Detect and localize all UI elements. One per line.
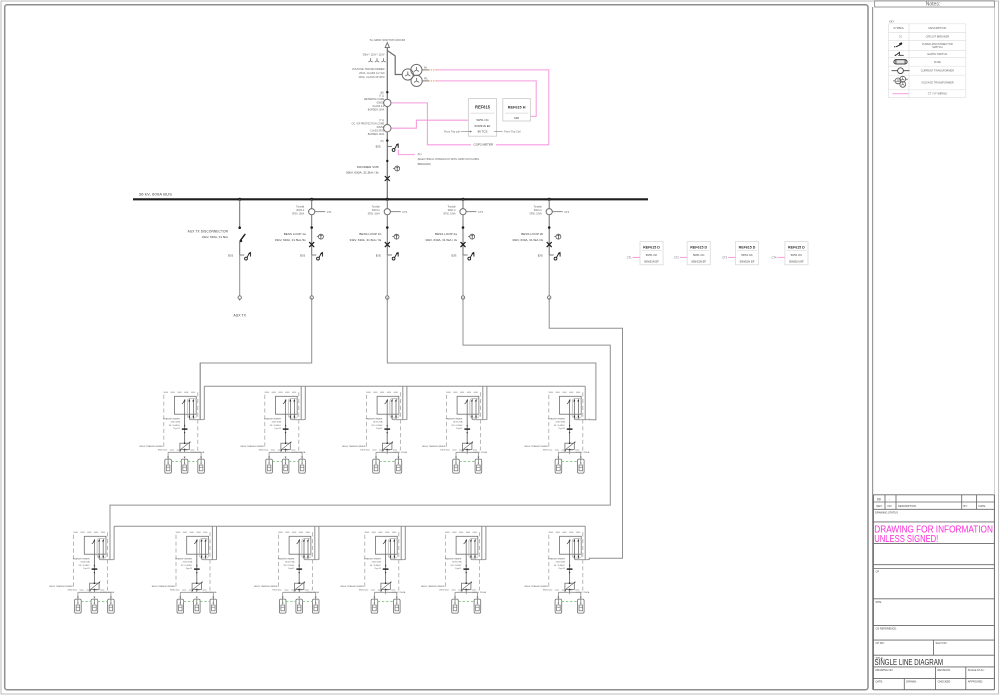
svg-text:(ELECTRICAL INTERLOCK WITH GRI: (ELECTRICAL INTERLOCK WITH GRID OUTGOING (418, 157, 480, 161)
svg-text:33kV, 630A, 31.5kA: 33kV, 630A, 31.5kA (202, 235, 228, 239)
svg-text:Toroidal: Toroidal (296, 206, 305, 209)
svg-text:BESS LOOP 2a: BESS LOOP 2a (435, 232, 457, 236)
svg-text:Notes:: Notes: (926, 2, 940, 8)
svg-text:EARTH SWITCH: EARTH SWITCH (928, 52, 948, 56)
svg-text:E/S: E/S (538, 254, 543, 258)
svg-text:DATE:: DATE: (876, 679, 884, 683)
svg-text:CURRENT TRANSFORMER: CURRENT TRANSFORMER (921, 69, 954, 73)
svg-text:86 TCS: 86 TCS (478, 130, 488, 134)
svg-text:OS REFERENCE:: OS REFERENCE: (876, 627, 897, 631)
svg-text:COP2 METER: COP2 METER (474, 142, 494, 146)
svg-text:From Trip coil: From Trip coil (444, 130, 460, 134)
svg-text:36 kV, 600A BUS: 36 kV, 600A BUS (139, 191, 172, 196)
svg-text:DESCRIPTION:: DESCRIPTION: (898, 504, 917, 508)
svg-text:(IL): (IL) (418, 152, 422, 156)
svg-text:FUSE: FUSE (934, 60, 941, 64)
svg-text:33kV, 630A, 31.5kA / 3s: 33kV, 630A, 31.5kA / 3s (346, 171, 379, 175)
svg-text:CT2: CT2 (674, 256, 679, 260)
svg-text:33kV / 110V / 110V: 33kV / 110V / 110V (363, 52, 385, 56)
svg-text:CT3: CT3 (722, 256, 727, 260)
svg-text:APPROVED:: APPROVED: (968, 679, 983, 683)
svg-text:CT2: CT2 (402, 210, 407, 214)
svg-text:5P20, 15VA: 5P20, 15VA (292, 212, 305, 215)
svg-text:CP NO:: CP NO: (876, 641, 885, 645)
svg-text:50N/51N EF: 50N/51N EF (644, 259, 659, 263)
svg-text:REF615 D: REF615 D (690, 246, 707, 250)
svg-text:SCALE AT A1:: SCALE AT A1: (968, 668, 985, 672)
svg-text:DATE:: DATE: (979, 504, 987, 508)
svg-text:INCOMER VCB: INCOMER VCB (357, 165, 379, 169)
svg-text:33kV, 630A, 31.5kA /3s: 33kV, 630A, 31.5kA /3s (275, 238, 306, 242)
svg-text:50/51 OC: 50/51 OC (646, 253, 658, 257)
svg-text:SYMBOL: SYMBOL (893, 26, 904, 30)
svg-text:20VA, CLASS 3P 3P/3: 20VA, CLASS 3P 3P/3 (358, 75, 385, 79)
svg-text:BURDEN 10VA: BURDEN 10VA (368, 133, 385, 136)
svg-text:SITE:: SITE: (876, 600, 883, 604)
svg-text:AUX TX: AUX TX (233, 313, 246, 317)
svg-text:50/51 OC: 50/51 OC (791, 253, 803, 257)
svg-text:BESS LOOP 1b: BESS LOOP 1b (359, 232, 381, 236)
svg-text:REV:: REV: (877, 504, 883, 508)
svg-text:BREAKER): BREAKER) (418, 162, 431, 166)
svg-text:VOLTAGE TRANSFORMER: VOLTAGE TRANSFORMER (352, 67, 385, 71)
svg-text:E/S: E/S (452, 254, 457, 258)
svg-text:DRAWING NO:: DRAWING NO: (876, 668, 894, 672)
svg-text:600/1 A: 600/1 A (448, 209, 456, 212)
svg-text:33kV, 630A, 31.5kA / 3s: 33kV, 630A, 31.5kA / 3s (425, 238, 457, 242)
svg-text:Toroidal: Toroidal (534, 206, 543, 209)
svg-text:50/51 OC: 50/51 OC (693, 253, 705, 257)
svg-text:VOLTAGE TRANSFORMER: VOLTAGE TRANSFORMER (921, 81, 954, 85)
svg-text:BESS LOOP 2b: BESS LOOP 2b (521, 232, 543, 236)
svg-text:Toroidal: Toroidal (372, 206, 381, 209)
svg-text:KEY: KEY (889, 20, 895, 24)
svg-text:BURDEN 10VA: BURDEN 10VA (368, 109, 385, 112)
svg-text:600/1 A: 600/1 A (296, 209, 304, 212)
svg-text:5P20, 15VA: 5P20, 15VA (443, 212, 456, 215)
svg-text:AUX TX DISCONNECTOR: AUX TX DISCONNECTOR (188, 230, 229, 234)
svg-text:REF615: REF615 (475, 105, 491, 110)
svg-text:REF615 D: REF615 D (739, 246, 756, 250)
svg-text:REF615 H: REF615 H (508, 105, 526, 109)
svg-text:33kV, 630A, 31.5kA / 3s: 33kV, 630A, 31.5kA / 3s (350, 238, 382, 242)
svg-text:REF615 D: REF615 D (788, 246, 805, 250)
svg-text:CT4: CT4 (772, 256, 777, 260)
svg-text:CT4: CT4 (564, 210, 569, 214)
svg-text:CT / VT WIRING: CT / VT WIRING (928, 92, 947, 96)
svg-text:5P20, 15VA: 5P20, 15VA (368, 212, 381, 215)
svg-text:DESCRIPTION: DESCRIPTION (929, 26, 947, 30)
svg-text:DRAWN:: DRAWN: (906, 679, 917, 683)
svg-text:-: - (889, 497, 890, 501)
svg-text:5P20, 15VA: 5P20, 15VA (530, 212, 543, 215)
svg-text:BY:: BY: (964, 504, 968, 508)
svg-text:50N/51N EF: 50N/51N EF (740, 259, 755, 263)
svg-text:63R: 63R (514, 116, 519, 120)
svg-text:CIRCUIT BREAKER: CIRCUIT BREAKER (926, 35, 950, 39)
svg-text:50N/51N EF: 50N/51N EF (475, 124, 491, 128)
svg-text:50/51 OC: 50/51 OC (476, 118, 488, 122)
svg-text:CHECKED:: CHECKED: (938, 679, 952, 683)
svg-text:600/1 A: 600/1 A (534, 209, 542, 212)
svg-text:E/S: E/S (376, 145, 381, 149)
svg-text:50N/51N EF: 50N/51N EF (691, 259, 706, 263)
svg-text:50/51 OC: 50/51 OC (741, 253, 753, 257)
svg-text:Toroidal: Toroidal (447, 206, 456, 209)
svg-text:SALT NO:: SALT NO: (936, 641, 948, 645)
svg-text:P1: P1 (424, 76, 428, 80)
svg-text:From Trip Coil: From Trip Coil (504, 130, 521, 134)
svg-text:E/S: E/S (228, 254, 233, 258)
svg-text:E/S: E/S (376, 254, 381, 258)
svg-text:00: 00 (877, 497, 881, 501)
svg-text:CT3: CT3 (478, 210, 483, 214)
svg-text:33kV, 630A, 31.5kA /3s: 33kV, 630A, 31.5kA /3s (512, 238, 543, 242)
svg-text:SWITCH: SWITCH (932, 45, 942, 49)
svg-text:CT1: CT1 (327, 210, 332, 214)
svg-text:SINGLE LINE DIAGRAM: SINGLE LINE DIAGRAM (875, 658, 944, 667)
svg-text:BESS LOOP 1a: BESS LOOP 1a (284, 232, 306, 236)
svg-text:20VA, CLASS 0.2 3x0: 20VA, CLASS 0.2 3x0 (359, 71, 385, 75)
svg-text:E/S: E/S (300, 254, 305, 258)
svg-text:50N/51N EF: 50N/51N EF (789, 259, 804, 263)
svg-text:REVISION:: REVISION: (938, 668, 951, 672)
svg-text:600/1 A: 600/1 A (372, 209, 380, 212)
svg-text:NO:: NO: (888, 504, 893, 508)
svg-text:CP: CP (876, 570, 880, 574)
svg-text:CT1: CT1 (627, 256, 632, 260)
svg-text:To GRID SWITCH-ROOM: To GRID SWITCH-ROOM (370, 38, 406, 42)
svg-text:DRAWING STATUS: DRAWING STATUS (875, 511, 898, 515)
svg-text:(P): (P) (381, 141, 384, 143)
svg-text:REF615 D: REF615 D (643, 246, 660, 250)
